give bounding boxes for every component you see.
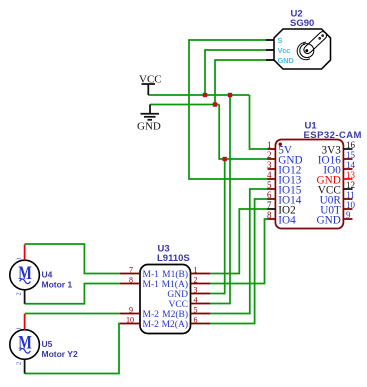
U3 pin 1 (M1(B)) xyxy=(162,266,210,281)
svg-text:2: 2 xyxy=(267,150,272,160)
wire net IO4: U1 pin8 to U3 pin2 M1(A) xyxy=(210,219,268,284)
U3 pin 3 (GND) xyxy=(167,286,210,301)
U4 pin 2 stub xyxy=(16,290,25,304)
U3 pin 5 (M2(B)) xyxy=(162,306,210,321)
wire VCC riser to U1 pin1 5V xyxy=(250,95,269,149)
svg-text:M-2: M-2 xyxy=(143,310,160,320)
U5 pin 2 stub xyxy=(16,360,25,374)
svg-text:6: 6 xyxy=(194,316,198,325)
wire net IO14: U1 pin6 to U3 pin6 M2(A) xyxy=(210,199,268,324)
U3 pin 4 (VCC) xyxy=(168,296,210,311)
svg-text:2: 2 xyxy=(194,276,198,285)
wire U5 pin1 to U3 pin9 xyxy=(25,313,120,315)
U1 pin 1 (5V) xyxy=(267,140,292,157)
U1 pin 9 (GND) xyxy=(317,210,353,227)
U3 pin 6 (M2(A)) xyxy=(162,316,210,331)
U2 pin GND stub xyxy=(266,56,294,65)
svg-text:M1(A): M1(A) xyxy=(162,279,188,290)
wire VCC rail horizontal xyxy=(148,94,249,96)
U4 pin 1 stub xyxy=(16,245,25,261)
wire net SERVO_VCC: U2.Vcc down to VCC rail xyxy=(205,50,266,95)
svg-text:15: 15 xyxy=(346,150,356,160)
U1 pin1 marker dot xyxy=(279,143,282,146)
svg-text:8: 8 xyxy=(267,210,272,220)
svg-text:10: 10 xyxy=(126,316,134,325)
svg-text:M2(A): M2(A) xyxy=(162,319,188,330)
wire net IO2: U1 pin7 to U3 pin1 M1(B) xyxy=(210,209,268,274)
svg-text:4: 4 xyxy=(267,170,272,180)
svg-text:M1(B): M1(B) xyxy=(162,269,188,280)
svg-text:9: 9 xyxy=(346,210,351,220)
svg-text:11: 11 xyxy=(346,190,355,200)
svg-text:GND: GND xyxy=(317,215,341,227)
wire U5 pin2 to U3 pin10 xyxy=(25,324,120,374)
U1 pin 8 (IO4) xyxy=(267,210,296,227)
U2 pin Vcc stub xyxy=(266,46,290,55)
svg-text:SG90: SG90 xyxy=(290,18,314,29)
ground symbol xyxy=(141,105,160,120)
junction dot at GND/servo GND (215,104.5) xyxy=(213,102,217,106)
U3 pin 8 (M-1) xyxy=(120,276,159,291)
svg-text:1: 1 xyxy=(16,257,23,260)
svg-text:Vcc: Vcc xyxy=(278,46,291,55)
svg-text:9: 9 xyxy=(129,306,133,315)
U1 pin 12 (VCC) xyxy=(318,180,355,197)
U2 pin S stub xyxy=(266,36,283,45)
junction dot at GND branch (224.7,159) xyxy=(223,157,227,161)
svg-text:8: 8 xyxy=(129,276,133,285)
svg-text:S: S xyxy=(278,36,283,45)
svg-text:VCC: VCC xyxy=(139,74,162,86)
svg-text:Motor Y2: Motor Y2 xyxy=(42,349,78,359)
svg-text:7: 7 xyxy=(267,200,272,210)
U1 pin 4 (IO13) xyxy=(267,170,302,187)
U1 pin 5 (IO15) xyxy=(267,180,302,197)
svg-text:1: 1 xyxy=(267,140,272,150)
wire net SERVO_GND: U2.GND down to GND rail xyxy=(215,60,266,105)
svg-text:1: 1 xyxy=(194,266,198,275)
svg-text:GND: GND xyxy=(137,121,161,133)
U1 pin 7 (IO2) xyxy=(267,200,296,217)
U3 pin 7 (M-1) xyxy=(120,266,159,281)
svg-text:Motor 1: Motor 1 xyxy=(42,279,73,289)
svg-text:12: 12 xyxy=(346,180,355,190)
svg-text:U4: U4 xyxy=(42,269,53,279)
U1 pin 16 (3V3) xyxy=(322,140,356,157)
svg-text:IO4: IO4 xyxy=(278,215,296,227)
U1 pin 11 (U0R) xyxy=(320,190,355,207)
svg-text:M2(B): M2(B) xyxy=(162,309,188,320)
U3 pin 10 (M-2) xyxy=(120,316,159,331)
U1 pin 15 (IO16) xyxy=(318,150,356,167)
junction dot at VCC/servo Vcc (205,95) xyxy=(203,93,207,97)
svg-text:M-1: M-1 xyxy=(143,280,160,290)
servo U2 horn graphic xyxy=(297,30,328,60)
op U1 ESP32-CAM body xyxy=(275,140,343,229)
motor U5 body xyxy=(10,330,40,360)
wire GND riser to U1 pin2 GND xyxy=(219,105,268,160)
U3 pin 2 (M1(A)) xyxy=(162,276,210,291)
svg-text:3: 3 xyxy=(194,286,198,295)
svg-text:VCC: VCC xyxy=(168,300,188,310)
svg-text:1: 1 xyxy=(16,327,23,330)
svg-text:5: 5 xyxy=(194,306,198,315)
svg-text:2: 2 xyxy=(16,362,23,365)
wire VCC drop to U3 pin4 xyxy=(210,95,230,304)
svg-text:14: 14 xyxy=(346,160,356,170)
U3 L9110S body xyxy=(140,265,191,334)
svg-text:GND: GND xyxy=(167,290,188,300)
svg-text:10: 10 xyxy=(346,200,356,210)
U1 pin 10 (U0T) xyxy=(320,200,355,217)
svg-text:13: 13 xyxy=(346,170,356,180)
wire GND rail horizontal xyxy=(150,104,219,106)
svg-text:M-1: M-1 xyxy=(143,270,160,280)
svg-text:7: 7 xyxy=(129,266,133,275)
junction dot at VCC/U3 drop (230,95) xyxy=(228,93,232,97)
svg-text:4: 4 xyxy=(194,296,198,305)
svg-text:M-2: M-2 xyxy=(143,320,160,330)
U1 pin 2 (GND) xyxy=(267,150,303,167)
U1 pin 13 (GND) xyxy=(317,170,356,187)
U1 pin 6 (IO14) xyxy=(267,190,302,207)
wire GND drop to U3 pin3 xyxy=(210,159,225,294)
svg-text:5: 5 xyxy=(267,180,272,190)
svg-text:16: 16 xyxy=(346,140,356,150)
wire U4 pin2 to U3 pin8 xyxy=(25,284,120,304)
svg-text:U5: U5 xyxy=(42,339,53,349)
wire U4 pin1 to U3 pin7 xyxy=(25,244,120,274)
motor U4 body xyxy=(10,260,40,290)
servo U2 body xyxy=(274,29,331,69)
U1 pin 3 (IO12) xyxy=(267,160,301,177)
svg-text:L9110S: L9110S xyxy=(157,253,190,264)
wire net SERVO_S: U2.S to U1.IO13 xyxy=(189,40,268,179)
wire net IO15: U1 pin5 to U3 pin5 M2(B) xyxy=(210,189,268,314)
svg-text:2: 2 xyxy=(16,292,23,295)
svg-text:3: 3 xyxy=(267,160,272,170)
wires group xyxy=(25,40,268,374)
svg-text:6: 6 xyxy=(267,190,272,200)
U5 pin 1 stub xyxy=(16,314,25,330)
svg-text:GND: GND xyxy=(278,56,295,65)
U1 pin 14 (IO0) xyxy=(323,160,355,177)
U3 pin 9 (M-2) xyxy=(120,306,159,321)
VCC power symbol xyxy=(142,84,156,95)
